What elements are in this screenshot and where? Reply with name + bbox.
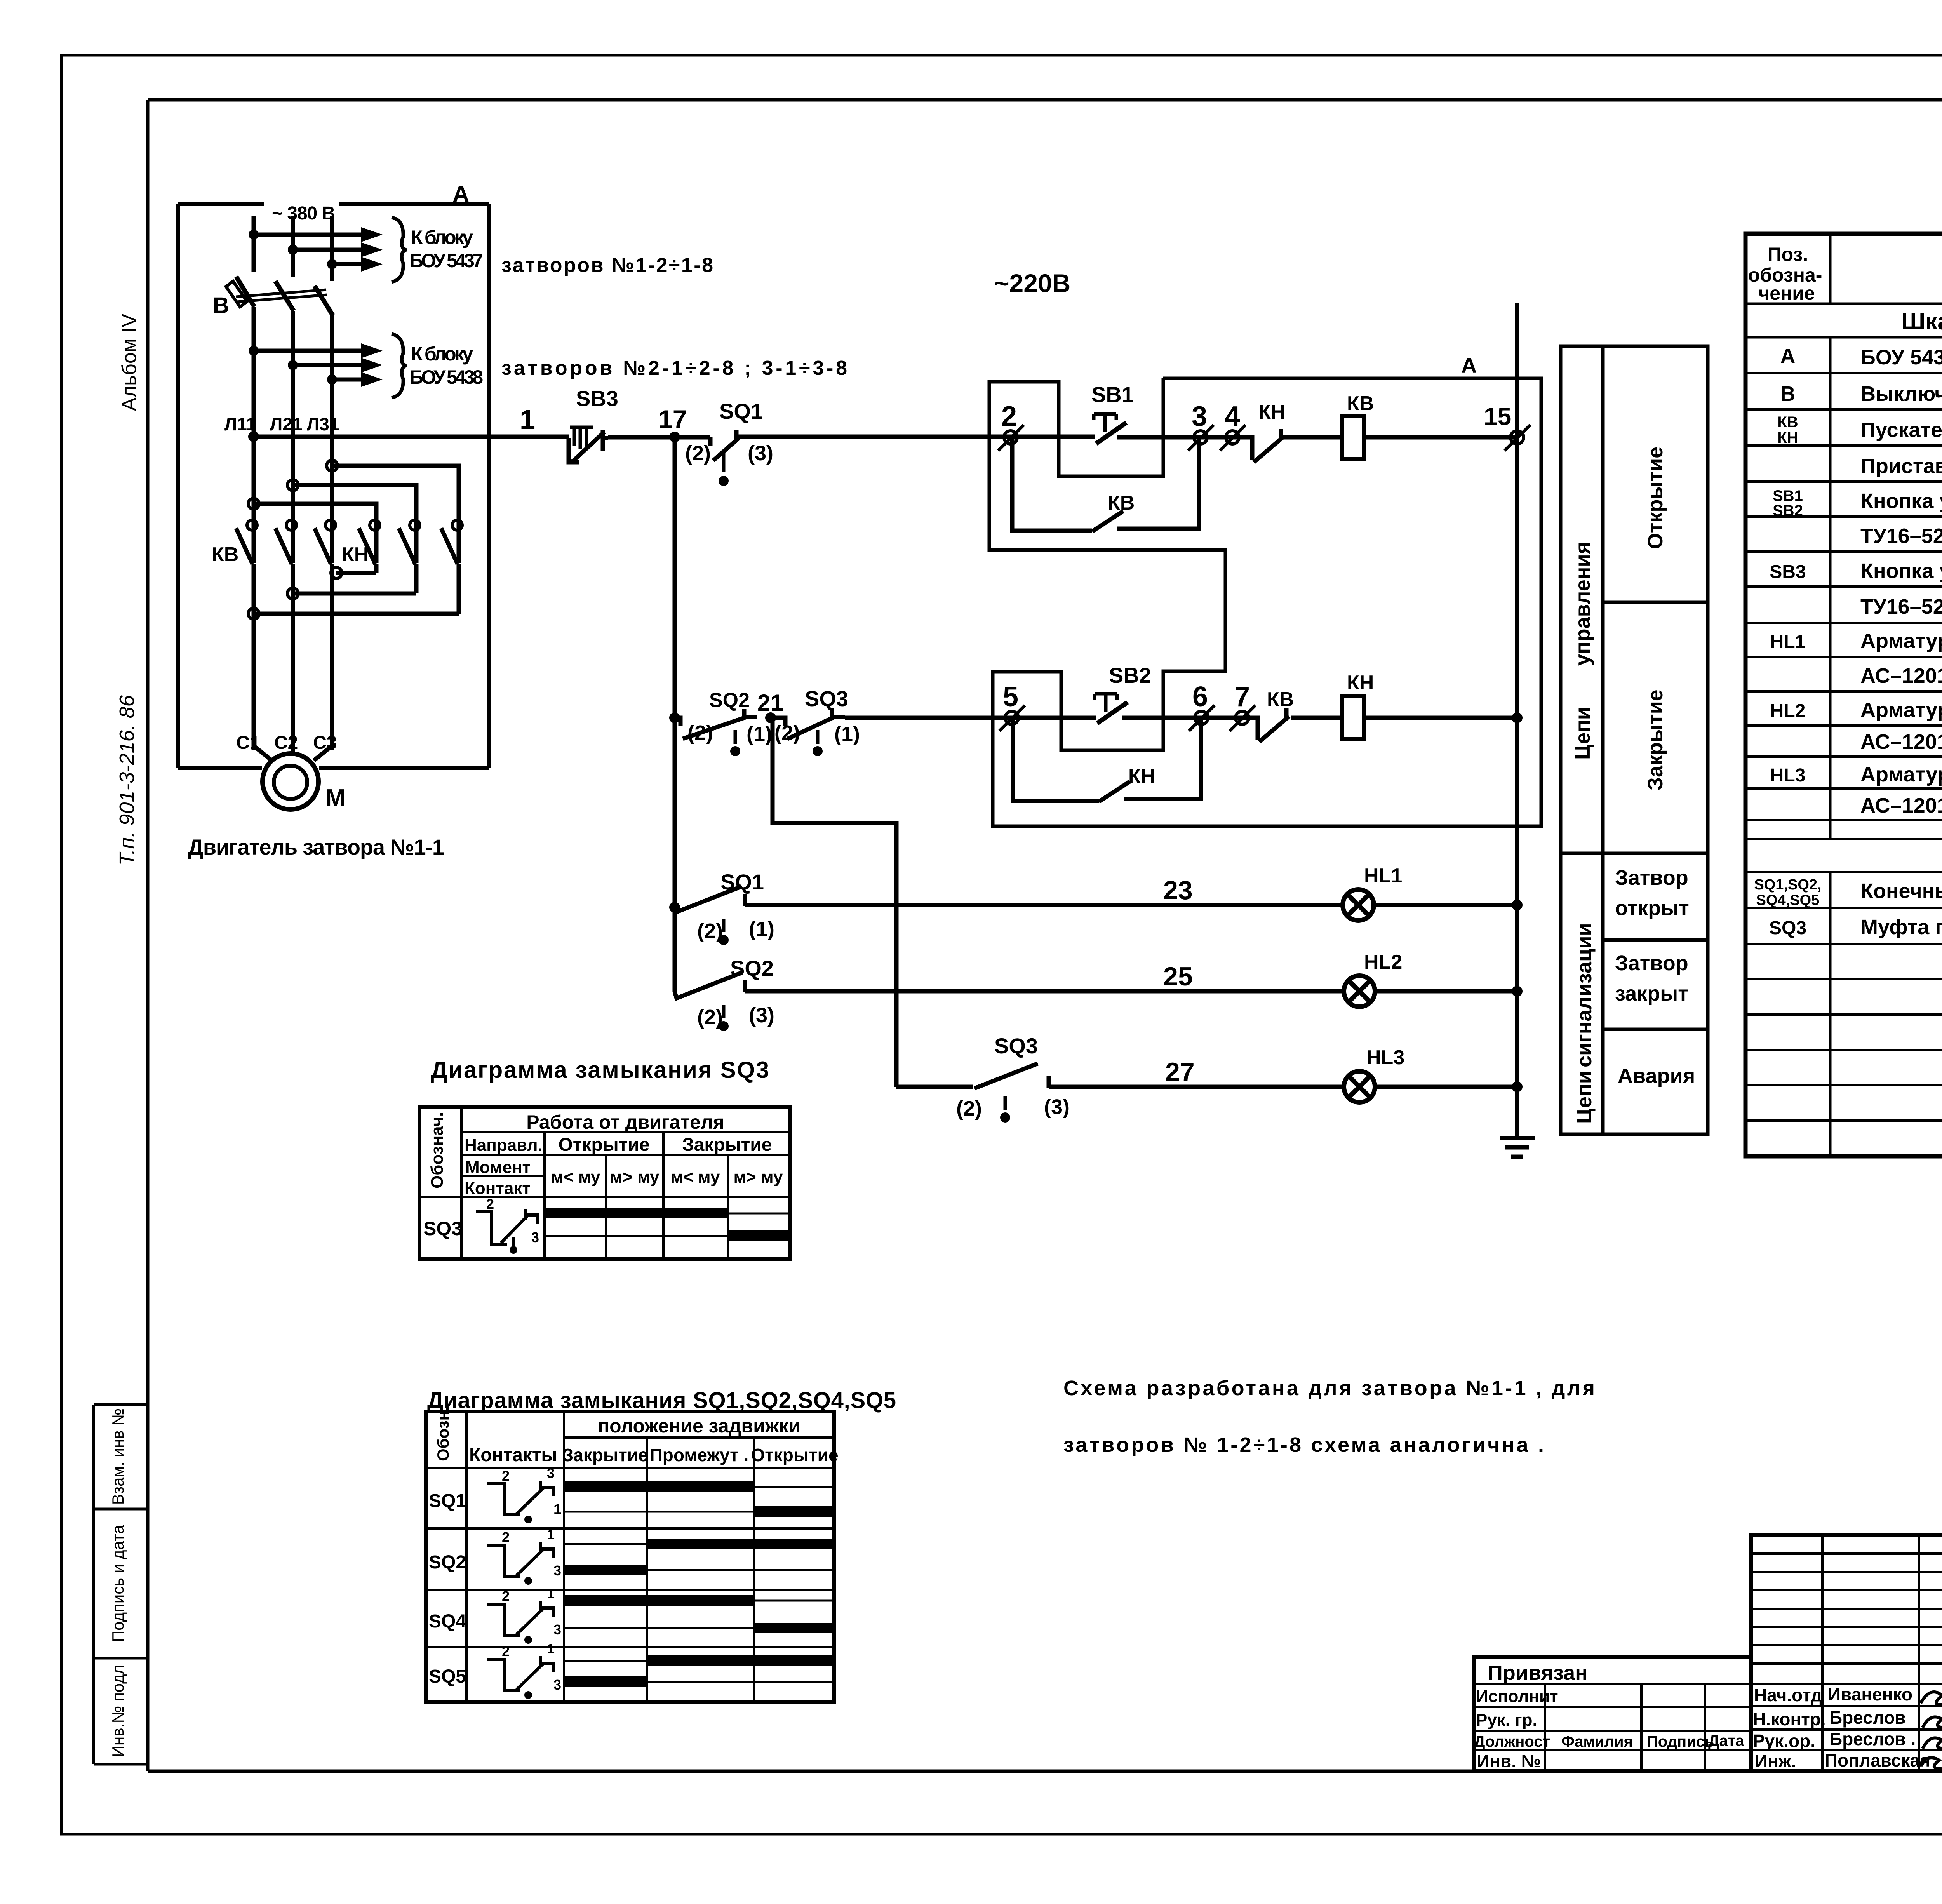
svg-text:м< му: м< му <box>671 1168 720 1187</box>
svg-text:Закрытие: Закрытие <box>1644 689 1667 790</box>
svg-text:К блоку: К блоку <box>411 343 473 365</box>
svg-text:SB3: SB3 <box>1770 562 1806 582</box>
closure bars SQ2 <box>647 1539 834 1549</box>
svg-text:SB2: SB2 <box>1109 663 1151 687</box>
wire 23 <box>757 903 1344 907</box>
svg-text:С1: С1 <box>236 733 260 753</box>
svg-text:Открытие: Открытие <box>1644 447 1667 549</box>
svg-text:1: 1 <box>553 1501 561 1517</box>
ground symbol <box>1500 1087 1535 1157</box>
svg-text:Бреслов: Бреслов <box>1829 1707 1906 1728</box>
left margin strip <box>94 1405 148 1764</box>
curly brace group 1 <box>392 218 406 282</box>
handwritten signature 2 <box>1923 1714 1942 1732</box>
svg-text:Двигатель затвора №1-1: Двигатель затвора №1-1 <box>188 835 444 859</box>
KN cross feed wires <box>254 466 459 527</box>
svg-text:Л31: Л31 <box>307 414 339 434</box>
svg-text:Кнопка управления КЕ–011У3: Кнопка управления КЕ–011У3 исп.5 <box>1860 559 1942 583</box>
cabinet box A (power section) <box>178 204 489 768</box>
terminal 3 <box>1194 431 1207 444</box>
parts table frame <box>1745 234 1942 1156</box>
svg-text:Взам. инв №: Взам. инв № <box>109 1408 127 1505</box>
handwritten signature 3 <box>1923 1735 1942 1753</box>
svg-text:(1): (1) <box>747 722 772 746</box>
svg-text:Альбом IV: Альбом IV <box>118 314 141 411</box>
svg-text:Арматура светосигнальная: Арматура светосигнальная <box>1860 698 1942 722</box>
svg-text:Затвор: Затвор <box>1615 866 1688 889</box>
svg-text:SQ3: SQ3 <box>805 686 848 711</box>
classification table frame <box>1561 346 1708 1134</box>
svg-text:SQ3: SQ3 <box>1769 918 1806 938</box>
svg-text:КН: КН <box>1347 672 1374 694</box>
svg-text:SQ2: SQ2 <box>709 689 750 712</box>
svg-text:SQ4: SQ4 <box>429 1611 466 1632</box>
KV main contacts (3 poles) <box>236 527 332 750</box>
svg-text:~ 380 В: ~ 380 В <box>272 203 335 224</box>
svg-text:чение: чение <box>1758 282 1815 304</box>
wire line 1 control feed <box>254 435 569 439</box>
svg-text:Выключатель АЕ2026–10У3: Выключатель АЕ2026–10У3 <box>1860 382 1942 406</box>
svg-text:2: 2 <box>502 1588 510 1604</box>
svg-text:Арматура светосигнальная: Арматура светосигнальная <box>1860 629 1942 653</box>
svg-text:Должност: Должност <box>1474 1733 1550 1750</box>
closure bars SQ5 <box>647 1655 834 1666</box>
handwritten signature 1 <box>1921 1684 1942 1705</box>
svg-text:Нач.отд: Нач.отд <box>1754 1685 1822 1705</box>
svg-text:SQ3: SQ3 <box>994 1034 1038 1058</box>
KN main contacts (3 poles) <box>359 527 459 564</box>
svg-text:Авария: Авария <box>1618 1064 1695 1088</box>
svg-text:Схема разработана для за: Схема разработана для затвора №1-1 , для <box>1063 1377 1595 1400</box>
svg-text:Поз.: Поз. <box>1768 244 1808 265</box>
svg-text:В: В <box>213 293 229 318</box>
circuit breaker V: pole 1 <box>236 277 254 307</box>
svg-text:15: 15 <box>1484 402 1511 430</box>
svg-text:Фамилия: Фамилия <box>1561 1733 1633 1750</box>
svg-text:23: 23 <box>1163 875 1193 905</box>
motor M circle <box>263 754 318 809</box>
svg-text:Бреслов .: Бреслов . <box>1829 1729 1916 1749</box>
svg-text:С3: С3 <box>313 733 337 753</box>
svg-text:Иваненко: Иваненко <box>1828 1684 1912 1704</box>
svg-text:м> му: м> му <box>610 1168 660 1187</box>
svg-text:3: 3 <box>1192 401 1207 432</box>
svg-text:HL3: HL3 <box>1366 1046 1404 1069</box>
wire row1 to node 2 <box>749 435 1095 439</box>
svg-text:6: 6 <box>1192 681 1208 712</box>
svg-text:НL1: НL1 <box>1770 632 1806 652</box>
terminal 6 <box>1195 711 1208 724</box>
table SQ3 frame <box>419 1107 790 1259</box>
svg-text:(2): (2) <box>685 442 711 465</box>
svg-text:2: 2 <box>502 1529 510 1545</box>
svg-text:27: 27 <box>1165 1057 1195 1087</box>
arrow tap to BOU5437 phase3 <box>332 262 361 266</box>
svg-text:SQ5: SQ5 <box>429 1666 466 1687</box>
svg-text:Контакт: Контакт <box>465 1179 531 1198</box>
svg-text:А: А <box>452 181 469 207</box>
junction row23 on left bus <box>669 902 680 913</box>
svg-text:КВ: КВ <box>1267 688 1294 711</box>
closure bars SQ1 <box>564 1481 754 1492</box>
svg-text:открыт: открыт <box>1615 896 1689 920</box>
closure bars SQ3 row <box>545 1213 790 1236</box>
phase bus L3 <box>330 216 334 563</box>
wire coil KV to bus <box>1364 435 1517 440</box>
svg-text:(2): (2) <box>774 721 800 745</box>
svg-text:Инв.№ подл: Инв.№ подл <box>109 1665 127 1757</box>
svg-text:С2: С2 <box>274 733 298 753</box>
svg-text:21: 21 <box>757 690 783 716</box>
svg-text:закрыт: закрыт <box>1615 982 1688 1005</box>
svg-text:Промежут .: Промежут . <box>650 1445 749 1465</box>
svg-text:(3): (3) <box>748 442 773 465</box>
svg-text:Рук. гр.: Рук. гр. <box>1476 1711 1537 1730</box>
svg-text:А: А <box>1780 345 1796 368</box>
svg-text:КН: КН <box>1777 429 1798 446</box>
svg-text:БОУ 5438: БОУ 5438 <box>409 366 483 388</box>
wire SB1 to terminal 3 <box>1117 435 1239 440</box>
svg-text:~220В: ~220В <box>994 269 1070 298</box>
circuit breaker V: pole 2 <box>275 281 294 311</box>
svg-text:КН: КН <box>342 543 369 566</box>
svg-text:SB2: SB2 <box>1773 502 1803 519</box>
svg-text:Дата: Дата <box>1708 1732 1744 1749</box>
svg-text:ТУ16–526. 407–79: ТУ16–526. 407–79 <box>1860 595 1942 618</box>
curly brace group 2 <box>392 334 406 398</box>
svg-text:Арматура светосигнальная: Арматура светосигнальная <box>1860 763 1942 786</box>
svg-text:(3): (3) <box>1044 1095 1070 1119</box>
svg-text:5: 5 <box>1003 681 1018 712</box>
svg-text:Диаграмма замыкания SQ3: Диаграмма замыкания SQ3 <box>431 1057 769 1083</box>
svg-text:Инж.: Инж. <box>1755 1751 1796 1771</box>
svg-text:3: 3 <box>553 1677 561 1693</box>
svg-text:Открытие: Открытие <box>751 1445 838 1465</box>
junction row2 on neutral bus <box>1512 712 1523 723</box>
svg-text:Исполнит: Исполнит <box>1476 1687 1558 1706</box>
title block signature grid <box>1751 1535 1942 1771</box>
svg-text:К блоку: К блоку <box>411 226 473 248</box>
svg-text:КВ: КВ <box>1347 392 1374 415</box>
handwritten signature 4 <box>1918 1757 1942 1774</box>
svg-text:БОУ 5437: БОУ 5437 <box>409 250 483 272</box>
svg-text:Цепи: Цепи <box>1571 707 1594 760</box>
contact pictogram SQ3 <box>476 1209 538 1245</box>
svg-text:Л21: Л21 <box>270 414 302 434</box>
svg-text:3: 3 <box>547 1465 555 1481</box>
svg-text:Закрытие: Закрытие <box>682 1135 772 1155</box>
SQ1 actuator stem <box>722 453 726 472</box>
svg-text:4: 4 <box>1225 401 1240 432</box>
wire 25 <box>757 989 1344 994</box>
wire KV contact to KN coil <box>1291 716 1342 720</box>
svg-text:1: 1 <box>547 1586 555 1601</box>
phase bus L1 <box>252 216 256 563</box>
svg-text:управления: управления <box>1571 542 1594 666</box>
svg-text:Поплавская: Поплавская <box>1825 1750 1930 1770</box>
right neutral bus <box>1515 303 1519 1087</box>
cabinet boundary meander (terminals loop) <box>989 378 1541 826</box>
svg-text:1: 1 <box>547 1526 555 1542</box>
breaker handle <box>226 281 247 307</box>
arrow tap to BOU5438 phase2 <box>293 363 361 367</box>
svg-text:3: 3 <box>531 1229 539 1245</box>
wire after SB3 <box>608 435 710 440</box>
svg-text:Т.п. 901-3-216. 86: Т.п. 901-3-216. 86 <box>115 694 139 865</box>
svg-text:Шкаф 1Ш ( 2Ш ) .: Шкаф 1Ш ( 2Ш ) . <box>1901 308 1942 335</box>
circuit breaker V: pole 3 <box>315 286 333 315</box>
svg-text:КВ: КВ <box>212 543 238 566</box>
svg-text:м> му: м> му <box>734 1168 783 1187</box>
svg-text:7: 7 <box>1234 681 1250 712</box>
table SQ1245 frame <box>426 1411 834 1702</box>
svg-text:Л11: Л11 <box>224 414 256 434</box>
svg-text:КН: КН <box>1258 401 1285 423</box>
svg-text:3: 3 <box>553 1622 561 1638</box>
tap from node 21 to signal circuits <box>773 718 896 1087</box>
svg-text:(2): (2) <box>687 721 713 745</box>
wire 27 <box>1061 1085 1344 1089</box>
svg-text:2: 2 <box>1001 401 1017 432</box>
svg-text:В: В <box>1780 382 1796 406</box>
svg-text:Н.контр.: Н.контр. <box>1753 1709 1826 1729</box>
svg-text:SQ1,SQ2,: SQ1,SQ2, <box>1754 877 1821 893</box>
svg-text:17: 17 <box>658 405 687 433</box>
wire KN contact to KV coil <box>1282 435 1342 440</box>
svg-text:1: 1 <box>547 1641 555 1657</box>
terminal 15 <box>1510 431 1524 444</box>
svg-text:Работа от двигателя: Работа от двигателя <box>526 1111 724 1133</box>
SB3 mushroom actuator <box>570 427 593 449</box>
svg-text:Конечный выключатель: Конечный выключатель <box>1860 879 1942 903</box>
svg-text:(3): (3) <box>749 1004 774 1027</box>
svg-text:SQ1: SQ1 <box>429 1491 466 1511</box>
phase bus L2 <box>291 216 295 563</box>
svg-text:Затвор: Затвор <box>1615 952 1688 975</box>
wire SQ3 to terminal 5 <box>845 716 1096 720</box>
svg-text:Подпись: Подпись <box>1647 1733 1714 1750</box>
terminal 7 <box>1236 711 1249 724</box>
svg-text:Диаграмма замыкания SQ1,SQ2,: Диаграмма замыкания SQ1,SQ2,SQ4,SQ5 <box>427 1388 896 1413</box>
svg-text:HL1: HL1 <box>1364 865 1402 887</box>
svg-text:Подпись и дата: Подпись и дата <box>109 1525 127 1642</box>
svg-text:Момент: Момент <box>465 1158 531 1177</box>
svg-text:SQ1: SQ1 <box>719 399 763 423</box>
svg-text:положение задвижки: положение задвижки <box>598 1415 800 1437</box>
svg-text:АС–12013У2 ТУ 16–535.930–76: АС–12013У2 ТУ 16–535.930–76 <box>1860 730 1942 754</box>
breaker linkage bar <box>236 290 327 302</box>
arrow tap to BOU5438 phase3 <box>332 378 361 382</box>
svg-text:SB1: SB1 <box>1091 382 1134 407</box>
svg-text:2: 2 <box>502 1643 510 1659</box>
svg-text:А: А <box>1461 353 1477 378</box>
svg-text:Обозн.: Обозн. <box>434 1406 452 1461</box>
svg-text:Инв. №: Инв. № <box>1477 1751 1541 1771</box>
svg-text:Обознач.: Обознач. <box>428 1112 447 1189</box>
svg-text:Пускатель ПМЛ 150104: Пускатель ПМЛ 150104 <box>1860 418 1942 442</box>
svg-text:25: 25 <box>1163 962 1193 991</box>
svg-text:Контакты: Контакты <box>469 1445 557 1465</box>
node 21 junction <box>765 712 776 723</box>
svg-text:м< му: м< му <box>551 1168 600 1187</box>
title block left part (Privyazan) <box>1474 1657 1751 1771</box>
motor wires C1 C2 C3 <box>254 593 332 761</box>
svg-text:Привязан: Привязан <box>1488 1661 1588 1685</box>
svg-text:АС–12011У2 ТУ–16–535.930–76: АС–12011У2 ТУ–16–535.930–76 <box>1860 664 1942 687</box>
left control bus (from node 17 down) <box>673 437 677 992</box>
terminal 2 <box>1004 431 1017 444</box>
svg-text:(2): (2) <box>956 1097 982 1120</box>
svg-text:Кнопка управления КЕ-011У3: Кнопка управления КЕ-011У3 исп.4 <box>1860 489 1942 513</box>
closure bars SQ4 <box>564 1595 754 1606</box>
svg-text:АС–12014У2 ТУ16–535.930–76: АС–12014У2 ТУ16–535.930–76 <box>1860 794 1942 817</box>
svg-text:БОУ 5437–3074УхЛ4А: БОУ 5437–3074УхЛ4А <box>1860 346 1942 369</box>
svg-text:Направл.: Направл. <box>465 1136 543 1155</box>
svg-text:ТУ16–526.407–79: ТУ16–526.407–79 <box>1860 524 1942 548</box>
arrow tap to BOU5437 phase2 <box>293 248 361 252</box>
svg-text:1: 1 <box>520 404 535 435</box>
svg-text:НL3: НL3 <box>1770 765 1806 786</box>
svg-text:Закрытие: Закрытие <box>562 1445 648 1465</box>
svg-text:Приставка контактная ПКЛ 20: Приставка контактная ПКЛ 2004 <box>1860 454 1942 478</box>
svg-text:3: 3 <box>553 1563 561 1579</box>
svg-text:(1): (1) <box>749 917 774 941</box>
svg-text:НL2: НL2 <box>1770 701 1806 721</box>
parts table row lines <box>1745 373 1942 1121</box>
arrow tap to BOU5437 phase1 <box>254 233 361 237</box>
svg-text:КН: КН <box>1128 765 1155 788</box>
svg-text:2: 2 <box>486 1196 494 1212</box>
svg-text:Цепи: Цепи <box>1573 1071 1596 1124</box>
svg-text:SQ2: SQ2 <box>429 1552 466 1573</box>
svg-text:затворов №1-2÷1-8: затворов №1-2÷1-8 <box>501 254 713 277</box>
svg-text:М: М <box>325 785 346 811</box>
svg-text:(1): (1) <box>834 722 860 746</box>
arrow tap to BOU5438 phase1 <box>254 349 361 353</box>
svg-text:Рук.ор.: Рук.ор. <box>1753 1731 1815 1751</box>
terminal 4 <box>1226 431 1239 444</box>
svg-text:SQ3: SQ3 <box>423 1218 462 1239</box>
node 17 junction <box>669 432 680 442</box>
junction on left bus row2 <box>669 712 680 723</box>
svg-text:SB3: SB3 <box>576 386 618 411</box>
svg-text:2: 2 <box>502 1468 510 1484</box>
node junction L11 to control feed <box>248 431 259 442</box>
svg-text:HL2: HL2 <box>1364 951 1402 973</box>
svg-text:Открытие: Открытие <box>559 1135 650 1155</box>
svg-text:сигнализации: сигнализации <box>1573 923 1596 1067</box>
svg-text:Муфта предельного момента: Муфта предельного момента <box>1860 915 1942 939</box>
svg-text:КВ: КВ <box>1777 414 1798 431</box>
svg-text:SQ4,SQ5: SQ4,SQ5 <box>1756 892 1820 908</box>
KN output cross wires <box>254 564 459 614</box>
terminal 5 <box>1005 711 1018 724</box>
